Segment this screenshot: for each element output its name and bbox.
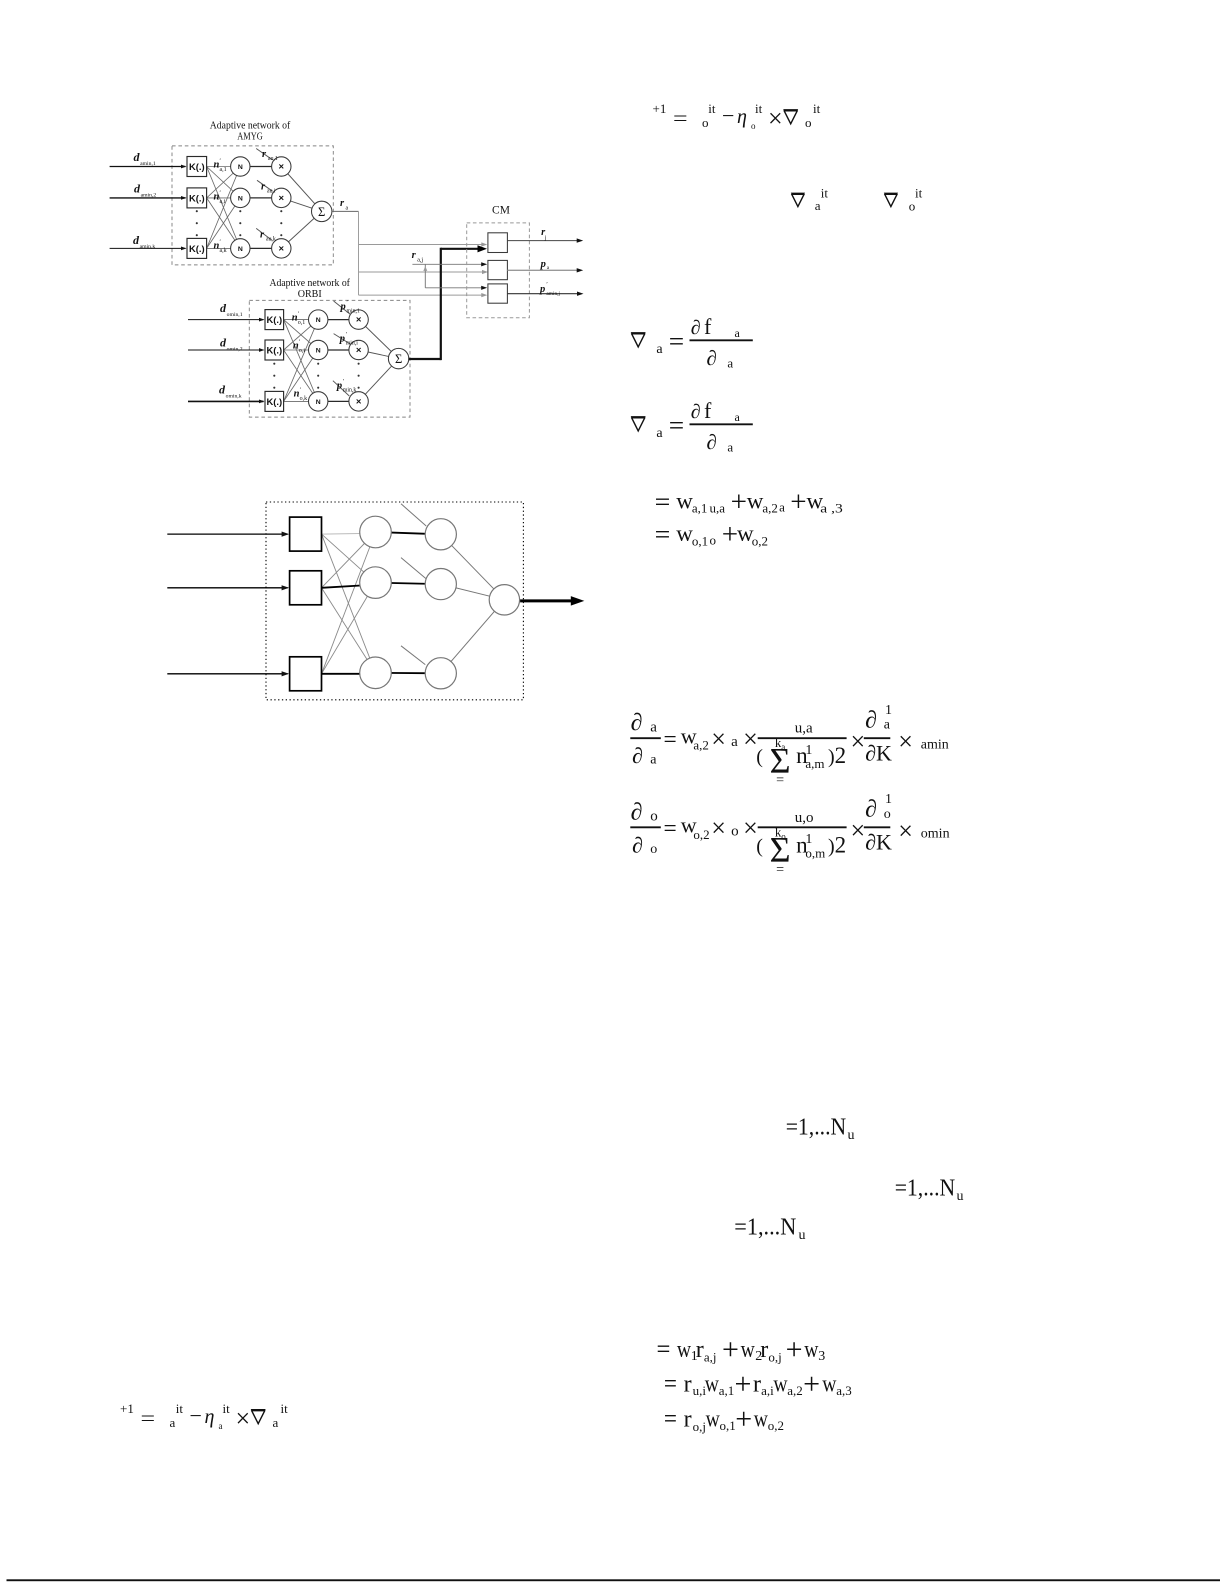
svg-text:N: N [238,246,243,253]
svg-text:o,2: o,2 [693,827,709,842]
svg-text:=: = [655,520,671,549]
svg-text:a: a [727,439,733,454]
svg-text:×: × [851,816,866,845]
wire r_a,j to CM box2 [412,263,483,265]
svg-text:o,1: o,1 [720,1418,736,1433]
svg-text:=: = [664,1369,677,1398]
svg-text:×: × [851,727,866,756]
svg-text:a: a [346,206,349,212]
svg-text:a: a [735,326,741,340]
svg-text:min,i: min,i [346,341,358,347]
N neuron row 3 [231,239,250,258]
svg-text:p: p [340,302,346,313]
multiplier node row 3 [272,239,291,258]
hidden circle 3 [360,657,392,689]
svg-text:min,1: min,1 [347,309,360,315]
svg-text:au,k: au,k [266,237,276,243]
svg-text:×: × [898,816,913,845]
svg-text:′: ′ [546,281,548,288]
svg-text:=: = [141,1406,156,1430]
svg-text:Σ: Σ [318,205,325,219]
input arrow 1 [167,533,287,535]
K(.) box row 1 [265,310,284,330]
wires multiplier nodes to sum node [359,320,399,359]
weight stub 1 [401,504,426,526]
svg-text:it: it [915,185,923,200]
svg-text:×: × [898,727,913,756]
svg-text:a ,3: a ,3 [820,501,843,516]
svg-text:p: p [339,334,345,345]
svg-text:a: a [650,719,657,735]
svg-text:a: a [656,426,663,441]
svg-text:∂: ∂ [631,710,643,736]
svg-text:+: + [786,1333,803,1366]
wires K boxes to N neurons [207,166,241,168]
svg-text:o: o [781,831,786,841]
input wire d_omin2 [188,349,264,351]
svg-text:w: w [804,1337,819,1363]
svg-text:o: o [710,533,717,548]
svg-text:N: N [238,195,243,202]
wire r_a branch to CM box3 [359,294,485,296]
multiplier node row 2 [272,188,291,207]
svg-text:=: = [664,816,677,842]
svg-text:=: = [657,1335,671,1364]
svg-text:a,j: a,j [704,1350,717,1365]
svg-text:a,1: a,1 [692,501,708,516]
svg-text:=: = [776,862,784,877]
svg-text:w: w [706,1407,721,1433]
K(.) box row 3 [187,238,207,258]
second layer circle 1 [425,519,456,550]
CM box 3 [488,284,508,303]
svg-text:+: + [722,1333,739,1366]
svg-text:∂: ∂ [691,401,701,423]
CM output p_a [507,269,577,271]
svg-text:+: + [790,486,806,518]
wires N neurons to multiplier nodes [240,166,281,168]
output thick arrow [520,599,571,602]
svg-text:a: a [273,1415,279,1430]
svg-text:f: f [704,314,712,339]
svg-text:∂: ∂ [865,797,877,823]
svg-text:a,2: a,2 [693,738,709,753]
second layer circle 2 [425,569,456,600]
svg-text:×: × [279,161,285,172]
svg-text:omin: omin [921,827,950,842]
input square 2 [290,571,322,605]
svg-text:∂K: ∂K [865,830,892,855]
svg-text:o,1: o,1 [298,320,306,326]
svg-text:omin,2: omin,2 [227,346,243,352]
svg-text:×: × [356,315,362,326]
svg-text:K(.): K(.) [189,161,205,172]
svg-text:o: o [909,199,916,214]
svg-text:a: a [735,410,741,424]
svg-text:u: u [957,1189,964,1204]
wire square1 to circle1 (light) [322,533,360,536]
wires input squares to hidden circles [322,534,376,583]
svg-text:o,i: o,i [299,348,306,354]
svg-text:omin,1: omin,1 [227,312,243,318]
svg-text:a,1: a,1 [220,167,227,173]
input wire d_amin1 [110,166,186,168]
svg-text:au,i: au,i [267,189,276,195]
N neuron row 3 [309,392,328,411]
svg-text:omin,k: omin,k [226,393,242,399]
svg-text:j: j [544,235,547,242]
svg-text:′: ′ [346,331,348,338]
svg-text:=: = [655,487,671,516]
svg-text:a: a [781,742,785,752]
svg-text:=1,...N: =1,...N [895,1176,956,1202]
svg-text:o: o [650,809,658,825]
svg-text:a,i: a,i [220,199,226,205]
wire r_a from AMYG sum node [332,210,359,212]
svg-text:w: w [773,1372,788,1398]
wire r_a,j branch to CM box3 [425,287,483,289]
svg-text:r: r [760,1337,768,1363]
svg-text:∂: ∂ [632,832,643,857]
svg-text:r: r [696,1337,704,1363]
K(.) box row 1 [187,157,207,177]
svg-text:a,2: a,2 [762,501,778,516]
svg-text:′: ′ [220,239,222,246]
svg-text:×: × [356,396,362,407]
weight stub 3 [401,646,425,665]
CM box 2 [488,260,508,279]
svg-text:a: a [650,753,657,768]
svg-text:r: r [340,198,345,209]
multiplier node row 3 [349,392,368,411]
gain label p min,k with stub [333,381,349,396]
svg-text:−: − [190,1403,202,1428]
dashed box AMYG network [172,146,333,265]
svg-text:it: it [813,101,821,116]
svg-text:a,j: a,j [417,258,423,264]
svg-text:o,m: o,m [805,845,825,860]
multiplier node row 2 [349,340,368,359]
svg-text:p: p [336,381,342,392]
K(.) box row 2 [265,340,284,360]
svg-text:η: η [205,1406,215,1428]
svg-text:it: it [821,185,829,200]
N neuron row 1 [309,310,328,329]
svg-text:1: 1 [885,703,892,718]
svg-text:o: o [731,823,739,839]
svg-text:AMYG: AMYG [237,132,263,143]
dashed box ORBI network [249,300,410,417]
svg-text:Σ: Σ [395,352,402,366]
wire r_a,j vertical branch [424,264,426,288]
svg-text:∂: ∂ [691,317,701,339]
svg-text:=: = [669,411,684,440]
svg-text:o: o [805,115,812,130]
K(.) box row 2 [187,188,207,208]
sum node Sigma [388,348,408,368]
input arrow 3 [167,673,287,675]
multiplier node row 1 [272,157,291,176]
svg-text:a: a [779,500,785,515]
svg-text:=: = [664,727,677,753]
equation fragment: grad_a^it and grad_o^it [791,193,805,195]
hidden circle 1 [360,516,392,548]
svg-text:ORBI: ORBI [298,289,322,300]
svg-text:′: ′ [298,311,300,318]
wire square3 to circle3 (bold) [322,673,376,675]
svg-text:o,2: o,2 [768,1418,784,1433]
svg-text:it: it [708,101,716,116]
N neuron row 1 [231,157,250,176]
svg-text:a,3: a,3 [836,1383,852,1398]
svg-text:u,a: u,a [795,721,813,737]
svg-text:u,o: u,o [795,810,814,826]
svg-text:it: it [176,1401,184,1416]
N neuron row 2 [231,188,250,207]
svg-text:u: u [848,1128,855,1143]
hidden circle 2 [360,567,392,599]
junction arrow on r_a,j branch [423,266,427,271]
svg-text:o,2: o,2 [752,534,768,549]
svg-text:amin,k: amin,k [140,244,156,250]
K(.) box row 3 [265,391,284,411]
svg-text:u,a: u,a [710,501,726,516]
svg-text:′: ′ [299,339,301,346]
svg-text:it: it [223,1401,231,1416]
svg-text:amin,1: amin,1 [140,161,156,167]
svg-text:×: × [279,193,285,204]
svg-text:+1: +1 [120,1401,134,1416]
svg-text:r: r [684,1407,692,1433]
svg-text:×: × [768,104,783,133]
svg-text:a: a [731,734,738,750]
svg-text:o: o [650,842,657,857]
svg-text:o: o [751,121,756,131]
svg-text:K(.): K(.) [189,192,205,203]
input square 3 [290,657,322,691]
svg-text:CM: CM [492,205,510,217]
input wire d_omin1 [188,319,264,321]
CM output p prime amin,j [507,293,577,295]
weight stub 2 [401,558,426,579]
svg-text:N: N [316,347,321,354]
svg-text:it: it [281,1401,289,1416]
svg-text:a,1: a,1 [719,1383,735,1398]
wires K boxes to N neurons [284,319,319,321]
svg-text:o: o [884,807,891,822]
svg-text:∂: ∂ [632,743,643,768]
svg-text:=: = [664,1404,677,1433]
CM dashed box [467,223,530,318]
svg-text:3: 3 [818,1349,825,1364]
svg-text:×: × [711,814,726,843]
wires multiplier nodes to sum node [281,167,321,212]
svg-text:u: u [799,1228,806,1243]
svg-text:K(.): K(.) [266,314,282,325]
input wire d_amink [110,247,186,249]
svg-text:au,1: au,1 [268,156,278,162]
svg-text:a,2: a,2 [787,1383,803,1398]
second layer circle 3 [425,658,456,689]
svg-text:+: + [735,1402,752,1435]
N neuron row 2 [309,340,328,359]
svg-text:w: w [822,1372,837,1398]
sum node Sigma [312,201,332,221]
bottom rule [7,1579,1221,1581]
svg-text:Adaptive network of: Adaptive network of [269,278,350,289]
svg-text:2: 2 [835,832,847,857]
ellipsis dots [273,363,275,365]
output circle [489,585,519,615]
svg-text:+: + [722,519,738,551]
svg-text:a: a [170,1415,176,1430]
svg-text:η: η [737,106,747,128]
ellipsis dots [196,210,198,212]
svg-text:N: N [238,164,243,171]
svg-text:a: a [884,718,891,733]
svg-text:o,1: o,1 [692,534,708,549]
svg-text:+: + [803,1367,820,1400]
wire r_a branch to CM box1 [359,244,485,246]
equation: grad_a = partial f_a over partial _a [631,332,646,334]
svg-text:K(.): K(.) [266,344,282,355]
svg-text:N: N [316,399,321,406]
svg-text:′: ′ [220,190,222,197]
svg-text:a: a [219,1421,223,1431]
svg-text:w: w [741,1337,756,1363]
svg-text:′: ′ [300,387,302,394]
svg-text:×: × [711,725,726,754]
svg-text:N: N [316,317,321,324]
svg-text:∂: ∂ [707,346,717,370]
svg-text:a: a [727,355,733,370]
svg-text:w: w [676,489,693,514]
svg-text:r: r [753,1372,761,1398]
input wire d_omink [188,400,264,402]
input arrow 2 [167,587,287,589]
svg-text:=: = [776,773,784,788]
dotted outer box [266,502,523,700]
svg-text:=1,...N: =1,...N [786,1115,847,1141]
svg-text:r: r [261,182,266,193]
svg-text:2: 2 [835,743,847,768]
svg-text:w: w [705,1372,720,1398]
svg-text:r: r [412,250,417,261]
multiplier node row 1 [349,310,368,329]
svg-text:amin,j: amin,j [546,291,560,297]
wire r_a branch to CM box2 [359,271,485,273]
input wire d_amin2 [110,197,186,199]
svg-text:o,j: o,j [768,1350,781,1365]
svg-text:p: p [539,284,545,295]
svg-text:K(.): K(.) [266,396,282,407]
svg-text:+1: +1 [653,101,667,116]
svg-text:∂: ∂ [707,430,717,454]
svg-text:∂: ∂ [865,708,877,734]
gain label r au,k with stub [256,228,272,240]
svg-text:′: ′ [343,378,345,385]
svg-text:Adaptive network of: Adaptive network of [210,121,291,132]
svg-text:+: + [731,486,747,518]
gain label r au,i with stub [257,180,273,191]
svg-text:w: w [754,1407,769,1433]
svg-text:′: ′ [220,158,222,165]
svg-text:r: r [684,1372,692,1398]
svg-text:=: = [669,327,684,356]
svg-text:∂K: ∂K [865,741,892,766]
svg-text:a,i: a,i [761,1383,774,1398]
svg-text:it: it [755,101,763,116]
svg-text:amin,2: amin,2 [141,192,157,198]
svg-text:(: ( [756,835,763,857]
wire r_o thick from ORBI sum node to CM box1 [409,358,441,360]
svg-text:o,j: o,j [693,1419,706,1434]
svg-text:−: − [722,103,734,128]
input square 1 [290,517,322,551]
svg-text:o: o [702,115,709,130]
gain label r au,1 with stub [256,149,272,160]
gain label p min,1 with stub [334,301,351,315]
wire square2 to circle2 (bold) [322,585,376,588]
svg-text:=: = [673,106,688,130]
svg-text:o,k: o,k [300,396,308,402]
svg-text:a: a [656,342,663,357]
wires N neurons to multiplier nodes [318,319,358,321]
wires second layer to output circle [441,534,505,600]
svg-text:×: × [279,243,285,254]
svg-text:f: f [704,398,712,423]
svg-text:min,k: min,k [343,388,356,394]
svg-text:(: ( [756,746,763,768]
svg-text:×: × [236,1404,251,1433]
svg-text:+: + [735,1367,752,1400]
svg-text:∂: ∂ [631,799,643,825]
svg-text:K(.): K(.) [189,243,205,254]
wire r_a vertical bus [358,211,360,295]
svg-text:w: w [747,489,764,514]
svg-text:1: 1 [885,792,892,807]
CM box 1 [488,233,508,253]
svg-text:a,m: a,m [805,756,824,771]
svg-text:amin: amin [921,738,949,753]
svg-text:a,k: a,k [220,248,227,254]
svg-text:=1,...N: =1,...N [734,1215,796,1241]
svg-text:w: w [676,521,693,546]
svg-text:p: p [540,259,546,270]
svg-text:r: r [262,149,267,160]
equation: grad_a = partial f_a over partial _a [631,416,646,418]
wires hidden circles to second layer [376,532,441,534]
gain label p min,i with stub [334,334,351,345]
CM output r_j [507,240,577,242]
svg-text:w: w [677,1337,692,1363]
